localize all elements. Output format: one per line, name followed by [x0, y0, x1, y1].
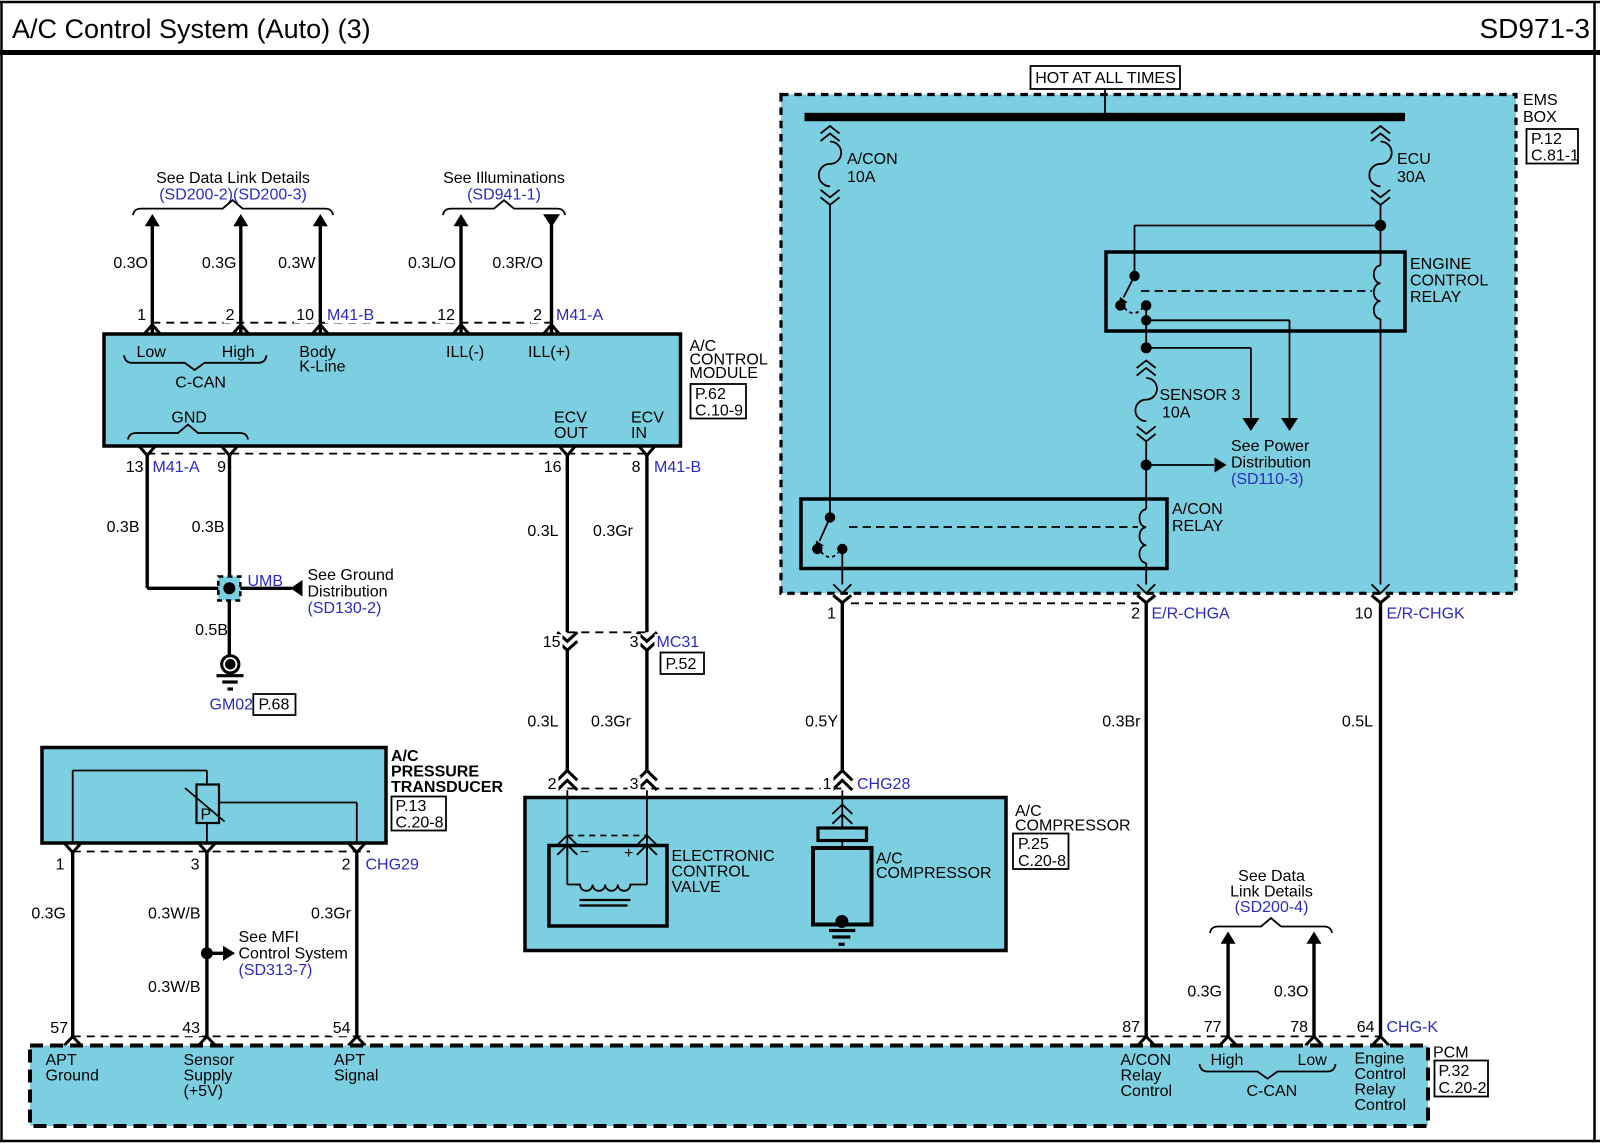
- wire label 0.5B: [195, 622, 228, 639]
- svg-text:A/CON: A/CON: [1121, 1052, 1172, 1069]
- svg-text:MODULE: MODULE: [690, 365, 758, 382]
- svg-text:43: 43: [182, 1020, 200, 1037]
- wire: module pin 2 to illuminations (0.3R/O): [543, 214, 560, 334]
- svg-text:10: 10: [296, 307, 314, 324]
- svg-text:(+5V): (+5V): [184, 1083, 224, 1100]
- wire label 0.3B (pin13): [107, 519, 140, 536]
- transducer internal wiring: [73, 771, 357, 844]
- svg-text:C.10-9: C.10-9: [695, 403, 743, 420]
- engine control relay actuation line: [1141, 290, 1372, 292]
- pin 12 (M41-A): [435, 307, 469, 334]
- svg-text:ILL(+): ILL(+): [528, 344, 570, 361]
- wire label 0.3Gr (lower): [591, 714, 632, 731]
- note: See Data Link Details (SD200-2)(SD200-3): [133, 170, 333, 215]
- svg-text:Low: Low: [1298, 1052, 1328, 1069]
- note: See Ground Distribution (SD130-2): [240, 567, 393, 617]
- wire: module pin 10 to data link (0.3W): [313, 214, 328, 334]
- connector label M41-B (bottom): [652, 459, 701, 476]
- svg-text:Link Details: Link Details: [1230, 884, 1313, 901]
- svg-text:0.3O: 0.3O: [1274, 984, 1309, 1001]
- svg-text:E/R-CHGA: E/R-CHGA: [1152, 606, 1231, 623]
- svg-text:P.68: P.68: [259, 697, 290, 714]
- svg-text:Distribution: Distribution: [308, 584, 388, 601]
- svg-text:3: 3: [630, 634, 639, 651]
- connector MC31 pin 15: [541, 632, 578, 651]
- relay: A/CON RELAY box: [801, 499, 1167, 569]
- svg-text:2: 2: [548, 776, 557, 793]
- svg-text:CHG29: CHG29: [366, 857, 419, 874]
- svg-text:E/R-CHGK: E/R-CHGK: [1387, 606, 1466, 623]
- connector CHG28 pin 1: [821, 771, 853, 794]
- thermal protector: [818, 828, 867, 841]
- PCM pin 77: [1202, 1019, 1237, 1046]
- svg-text:HOT AT ALL TIMES: HOT AT ALL TIMES: [1035, 70, 1176, 87]
- svg-text:0.5B: 0.5B: [195, 622, 228, 639]
- wire: sensor fuse output: [1145, 441, 1147, 509]
- svg-text:Relay: Relay: [1121, 1068, 1162, 1085]
- svg-text:87: 87: [1122, 1019, 1140, 1036]
- svg-text:13: 13: [126, 459, 144, 476]
- node: junction at sensor fuse output: [1141, 460, 1152, 471]
- ground symbol GM02: [217, 656, 244, 689]
- wire: A/CON relay output to EMS exit 1: [841, 549, 843, 585]
- svg-text:1: 1: [137, 307, 146, 324]
- wire label 0.5L: [1342, 714, 1373, 731]
- PCM pin 78: [1288, 1019, 1322, 1046]
- svg-text:15: 15: [543, 634, 561, 651]
- label: PCM: [1433, 1045, 1469, 1062]
- wire: module pin 2 to data link (0.3G): [233, 214, 248, 334]
- wire: CHG29 pin3 to PCM 43 (0.3W/B): [205, 853, 208, 1037]
- wire: E/R-CHGA to PCM pin 87 (0.3Br): [1144, 603, 1147, 1037]
- svg-text:P.62: P.62: [695, 386, 726, 403]
- svg-text:ECV: ECV: [554, 410, 587, 427]
- svg-text:IN: IN: [631, 425, 647, 442]
- wire: module pin 12 to illuminations (0.3L/O): [454, 214, 469, 334]
- wire: PCM pin 77 to data link (0.3G): [1221, 932, 1236, 1037]
- wire: pin 13 to UMB joint (0.3B): [147, 456, 229, 589]
- svg-text:Control: Control: [1121, 1083, 1173, 1100]
- svg-text:1: 1: [56, 857, 65, 874]
- polarity label +: [624, 845, 633, 862]
- svg-text:A/CON: A/CON: [847, 151, 898, 168]
- PCM pin 57: [48, 1020, 81, 1046]
- svg-text:P.12: P.12: [1531, 131, 1562, 148]
- pin 13 (M41-A): [124, 446, 156, 476]
- fuse A/CON 10A: [819, 126, 898, 205]
- PCM pin 43: [180, 1020, 215, 1046]
- PCM pin 87: [1120, 1019, 1155, 1046]
- wire: engine control relay coil to EMS exit 10: [1380, 319, 1382, 585]
- wire: PCM pin 78 to data link (0.3O): [1307, 932, 1322, 1037]
- connector CHG28 pin 2: [546, 771, 578, 794]
- svg-text:10A: 10A: [1162, 405, 1191, 422]
- svg-text:2: 2: [533, 307, 542, 324]
- svg-text:78: 78: [1290, 1019, 1308, 1036]
- module: A/C CONTROL MODULE box: [104, 334, 681, 446]
- page ref P.12 C.81-1: [1527, 129, 1580, 165]
- svg-text:CHG-K: CHG-K: [1387, 1019, 1439, 1036]
- page ref P.13 C.20-8: [392, 797, 447, 832]
- svg-text:0.3Gr: 0.3Gr: [591, 714, 632, 731]
- wire label 0.3L (upper): [527, 523, 558, 540]
- svg-text:TRANSDUCER: TRANSDUCER: [391, 779, 503, 796]
- wire: module pin 1 to data link (0.3O): [145, 214, 160, 334]
- ECV coil: [567, 845, 647, 891]
- connector CHG28 dashed line: [567, 788, 842, 790]
- svg-text:GM02: GM02: [210, 697, 254, 714]
- svg-text:16: 16: [544, 459, 562, 476]
- svg-text:See Ground: See Ground: [308, 567, 394, 584]
- svg-text:See Data: See Data: [1238, 868, 1305, 885]
- wire: pin 1 into compressor motor: [841, 790, 843, 828]
- pin 9 (M41-A): [215, 446, 238, 476]
- label: ENGINE CONTROL RELAY: [1410, 256, 1488, 306]
- PCM pin name: High: [1211, 1052, 1244, 1069]
- PCM pin name: A/CON Relay Control: [1121, 1052, 1173, 1100]
- wire label 0.3G (APT ground): [31, 906, 66, 923]
- wire: A/CON fuse to A/CON relay switch: [829, 206, 831, 514]
- module pin name: ECV OUT: [554, 410, 588, 443]
- wire: CHG29 pin1 to PCM 57 (0.3G): [71, 853, 74, 1037]
- node: branch junction y348: [1141, 342, 1152, 353]
- svg-text:(SD313-7): (SD313-7): [239, 962, 313, 979]
- svg-text:0.3Gr: 0.3Gr: [311, 906, 352, 923]
- wire: CHG29 pin2 to PCM 54 (0.3Gr): [355, 853, 358, 1037]
- svg-text:PRESSURE: PRESSURE: [391, 764, 479, 781]
- module: PCM box (cyan, dashed): [30, 1046, 1428, 1127]
- connector: EMS exit pin 1: [825, 584, 851, 622]
- svg-text:54: 54: [333, 1020, 351, 1037]
- svg-text:0.3G: 0.3G: [1187, 984, 1222, 1001]
- module pin name: Body K-Line: [299, 344, 345, 376]
- PCM pin name: APT Ground: [46, 1052, 99, 1085]
- svg-text:P.25: P.25: [1018, 836, 1049, 853]
- wire label 0.3W/B (upper): [148, 906, 200, 923]
- svg-text:C-CAN: C-CAN: [1247, 1083, 1298, 1100]
- PCM pin 54: [331, 1020, 366, 1046]
- wire: module pin 8 to MC31 (0.3Gr): [645, 456, 648, 633]
- A/CON relay coil: [1139, 509, 1146, 563]
- svg-text:APT: APT: [334, 1052, 365, 1069]
- note: See Data Link Details (SD200-4): [1210, 868, 1332, 933]
- svg-text:M41-B: M41-B: [654, 459, 701, 476]
- svg-text:K-Line: K-Line: [299, 359, 345, 376]
- svg-text:MC31: MC31: [657, 634, 700, 651]
- svg-text:(SD110-3): (SD110-3): [1231, 471, 1304, 488]
- svg-text:10: 10: [1355, 606, 1373, 623]
- wire label 0.3L (lower): [527, 714, 558, 731]
- connector label CHG28: [855, 776, 910, 793]
- pin 2 (M41-A): [531, 307, 560, 334]
- brace: PCM C-CAN group: [1200, 1064, 1336, 1079]
- connector CHG28 pin 3: [628, 771, 657, 794]
- page ref P.25 C.20-8: [1013, 834, 1069, 871]
- svg-text:ECU: ECU: [1397, 151, 1431, 168]
- module pin name: ECV IN: [631, 410, 664, 443]
- node: junction on ECU wire: [1375, 220, 1386, 231]
- svg-text:CONTROL: CONTROL: [1410, 273, 1488, 290]
- svg-text:RELAY: RELAY: [1410, 289, 1462, 306]
- svg-text:P.52: P.52: [666, 656, 697, 673]
- connector label M41-B (top): [325, 307, 374, 324]
- module top connector dashed line: [152, 322, 551, 324]
- svg-text:3: 3: [630, 776, 639, 793]
- PCM pin name: Engine Control Relay Control: [1355, 1051, 1407, 1115]
- svg-text:1: 1: [823, 776, 832, 793]
- svg-text:A/CON: A/CON: [1172, 501, 1223, 518]
- title separator bar: [0, 50, 1600, 55]
- wire label 0.3W/B (lower): [148, 979, 200, 996]
- node: motor ground dot: [835, 915, 848, 928]
- svg-text:0.3W/B: 0.3W/B: [148, 979, 200, 996]
- A/CON relay switch: [812, 512, 847, 557]
- svg-text:See Power: See Power: [1231, 438, 1310, 455]
- label: ELECTRONIC CONTROL VALVE: [672, 848, 775, 896]
- engine control relay switch: [1115, 271, 1151, 313]
- svg-text:ILL(-): ILL(-): [446, 344, 484, 361]
- svg-text:8: 8: [632, 459, 641, 476]
- svg-text:Control: Control: [1355, 1097, 1407, 1114]
- page ref P.52: [661, 653, 705, 675]
- svg-text:SD971-3: SD971-3: [1479, 13, 1590, 44]
- connector CHG29 pin 2: [340, 843, 366, 874]
- svg-text:C.20-2: C.20-2: [1439, 1080, 1487, 1097]
- connector label M41-A (bottom): [151, 459, 200, 476]
- svg-text:See MFI: See MFI: [239, 929, 299, 946]
- wire label 0.3L/O: [408, 255, 456, 272]
- connector CHG29 pin 3: [189, 843, 216, 874]
- svg-text:0.3L: 0.3L: [527, 714, 558, 731]
- brace: C-CAN group: [124, 355, 267, 370]
- note: See Power Distribution (SD110-3): [1146, 438, 1311, 488]
- svg-text:2: 2: [226, 307, 235, 324]
- svg-text:P: P: [201, 807, 212, 824]
- svg-text:Distribution: Distribution: [1231, 455, 1311, 472]
- compressor ground symbol: [829, 931, 855, 945]
- svg-text:0.3L: 0.3L: [527, 523, 558, 540]
- svg-text:64: 64: [1357, 1019, 1375, 1036]
- svg-text:2: 2: [342, 857, 351, 874]
- svg-text:GND: GND: [171, 410, 207, 427]
- svg-text:Control System: Control System: [239, 946, 348, 963]
- svg-text:(SD200-4): (SD200-4): [1235, 899, 1309, 916]
- wire: ECU fuse down to engine control relay coil: [1380, 206, 1382, 266]
- connector: EMS exit pin 2 E/R-CHGA: [1129, 584, 1230, 622]
- svg-text:0.3W/B: 0.3W/B: [148, 906, 200, 923]
- svg-text:10A: 10A: [847, 169, 876, 186]
- module bottom connector dashed line: [147, 453, 647, 455]
- connector label CHG29: [364, 857, 419, 874]
- compressor motor: [813, 848, 872, 925]
- svg-text:OUT: OUT: [554, 425, 588, 442]
- svg-text:Signal: Signal: [334, 1068, 378, 1085]
- wire: MC31 to ECV pin 2 (0.3L): [566, 650, 569, 770]
- connector: EMS exit pin 10 E/R-CHGK: [1353, 584, 1465, 622]
- module pin name: High: [222, 344, 255, 361]
- svg-text:12: 12: [437, 307, 455, 324]
- svg-text:See Illuminations: See Illuminations: [443, 170, 565, 187]
- label: EMS BOX: [1523, 92, 1558, 126]
- module pin name: ILL(-): [446, 344, 484, 361]
- svg-text:SENSOR 3: SENSOR 3: [1160, 387, 1241, 404]
- PCM net label C-CAN: [1247, 1083, 1298, 1100]
- PCM connector dashed line: [73, 1035, 1381, 1037]
- wire: protector to motor: [841, 841, 843, 849]
- svg-text:Ground: Ground: [46, 1068, 99, 1085]
- EMS box (cyan, dashed): [781, 95, 1516, 594]
- wire label 0.3Gr (upper): [593, 523, 634, 540]
- svg-text:RELAY: RELAY: [1172, 518, 1224, 535]
- ECV connector pin -: [557, 835, 577, 855]
- svg-text:3: 3: [191, 857, 200, 874]
- svg-text:0.3L/O: 0.3L/O: [408, 255, 456, 272]
- svg-text:P.13: P.13: [396, 798, 427, 815]
- wire label 0.3B (pin9): [192, 519, 225, 536]
- label: A/CON RELAY: [1172, 501, 1224, 535]
- connector CHG29 dashed line: [73, 851, 370, 853]
- note: See MFI Control System (SD313-7): [207, 929, 348, 979]
- svg-text:CONTROL: CONTROL: [672, 864, 750, 881]
- ECV connector pin +: [637, 835, 657, 855]
- wire label 0.3O (C-CAN low): [1274, 984, 1309, 1001]
- connector MC31 pin 3: [628, 632, 657, 651]
- svg-text:0.5Y: 0.5Y: [805, 714, 838, 731]
- title: SD971-3: [1479, 13, 1590, 44]
- svg-text:0.3Br: 0.3Br: [1102, 714, 1141, 731]
- page ref P.62 C.10-9: [691, 384, 747, 420]
- PCM pin name: Sensor Supply (+5V): [184, 1052, 235, 1100]
- svg-text:Sensor: Sensor: [184, 1052, 235, 1069]
- connector label CHG-K: [1385, 1019, 1439, 1036]
- page ref P.68: [253, 694, 295, 715]
- svg-text:A/C: A/C: [391, 748, 419, 765]
- wire: CHG28 net (0.5Y) EMS to compressor: [841, 603, 844, 771]
- svg-text:Low: Low: [137, 344, 167, 361]
- compressor inner connector: [832, 805, 852, 824]
- valve: ELECTRONIC CONTROL VALVE box: [549, 846, 667, 927]
- PCM pin 64: [1355, 1019, 1389, 1046]
- svg-text:M41-B: M41-B: [327, 307, 374, 324]
- pin 2 (M41-B): [224, 307, 249, 334]
- connector CHG29 pin 1: [54, 843, 82, 874]
- transducer: A/C PRESSURE TRANSDUCER box: [42, 748, 386, 844]
- label: A/C PRESSURE TRANSDUCER: [391, 748, 503, 796]
- svg-text:(SD130-2): (SD130-2): [308, 600, 382, 617]
- svg-text:0.3G: 0.3G: [31, 906, 66, 923]
- wire label 0.3G (C-CAN high): [1187, 984, 1222, 1001]
- svg-text:0.5L: 0.5L: [1342, 714, 1373, 731]
- label GM02: [210, 697, 254, 714]
- wire: pin 3 into ECV: [646, 790, 648, 855]
- compressor: A/C COMPRESSOR box: [525, 798, 1006, 951]
- label: HOT AT ALL TIMES: [1031, 66, 1181, 89]
- relay: ENGINE CONTROL RELAY box: [1106, 252, 1405, 331]
- brace: GND group: [128, 425, 248, 440]
- module pin name: ILL(+): [528, 344, 570, 361]
- svg-text:A/C Control System (Auto) (3): A/C Control System (Auto) (3): [12, 14, 371, 44]
- svg-text:0.3R/O: 0.3R/O: [492, 255, 543, 272]
- connector MC31 dashed line: [567, 631, 647, 633]
- wire: UMB to ground GM02 (0.5B): [228, 601, 231, 656]
- module pin name: GND: [171, 410, 207, 427]
- svg-text:+: +: [624, 845, 633, 862]
- svg-text:57: 57: [50, 1020, 68, 1037]
- svg-text:APT: APT: [46, 1052, 77, 1069]
- joint connector UMB: [218, 577, 240, 601]
- pin 16 (M41-B): [542, 446, 576, 476]
- svg-text:EMS: EMS: [1523, 92, 1558, 109]
- svg-text:1: 1: [827, 606, 836, 623]
- fuse SENSOR 3 10A: [1135, 361, 1240, 442]
- svg-text:0.3B: 0.3B: [192, 519, 225, 536]
- label: A/C COMPRESSOR (inner): [876, 851, 992, 883]
- svg-text:9: 9: [217, 459, 226, 476]
- svg-text:BOX: BOX: [1523, 109, 1557, 126]
- wire: pin 2 into ECV: [566, 790, 568, 855]
- title: A/C Control System (Auto) (3): [12, 14, 371, 44]
- power bus bar: [805, 113, 1406, 121]
- wire label 0.3G: [202, 255, 237, 272]
- svg-text:See Data Link Details: See Data Link Details: [156, 170, 310, 187]
- svg-text:77: 77: [1204, 1019, 1222, 1036]
- svg-text:0.3W: 0.3W: [278, 255, 316, 272]
- svg-text:VALVE: VALVE: [672, 879, 721, 896]
- svg-text:C-CAN: C-CAN: [175, 375, 226, 392]
- svg-text:PCM: PCM: [1433, 1045, 1469, 1062]
- svg-text:2: 2: [1131, 606, 1140, 623]
- wire: E/R-CHGK to PCM pin 64 (0.5L): [1379, 603, 1382, 1037]
- svg-text:30A: 30A: [1397, 169, 1426, 186]
- svg-text:Relay: Relay: [1355, 1082, 1396, 1099]
- wire: hot feed to bus bar: [1104, 89, 1106, 113]
- svg-text:ECV: ECV: [631, 410, 664, 427]
- svg-text:COMPRESSOR: COMPRESSOR: [876, 865, 992, 882]
- wire label 0.3R/O: [492, 255, 543, 272]
- pressure sensor element P: [185, 785, 225, 824]
- svg-text:C.20-8: C.20-8: [1018, 853, 1066, 870]
- ECV core lines: [580, 900, 631, 906]
- wire label 0.3Gr (APT signal): [311, 906, 352, 923]
- pin 8 (M41-B): [630, 446, 655, 476]
- svg-text:ENGINE: ENGINE: [1410, 256, 1471, 273]
- wire: module pin 16 to MC31 (0.3L): [566, 456, 569, 633]
- svg-text:High: High: [222, 344, 255, 361]
- A/CON relay actuation line: [849, 526, 1138, 528]
- node: branch junction y320: [1141, 315, 1151, 325]
- wire label 0.3Br: [1102, 714, 1141, 731]
- node: MFI branch junction: [201, 947, 213, 959]
- wire: branch to power distribution arrow right: [1146, 320, 1298, 431]
- svg-text:C.20-8: C.20-8: [396, 815, 444, 832]
- engine control relay coil: [1374, 266, 1381, 319]
- wire label 0.3O: [113, 255, 148, 272]
- svg-text:−: −: [580, 844, 589, 861]
- label: A/C CONTROL MODULE: [690, 338, 768, 382]
- label: A/C COMPRESSOR (outer): [1015, 803, 1131, 835]
- ECV connector dashed line: [567, 835, 647, 837]
- label UMB: [248, 573, 284, 590]
- wire label 0.5Y: [805, 714, 838, 731]
- pin 10 (M41-B): [294, 307, 328, 334]
- svg-text:0.3G: 0.3G: [202, 255, 237, 272]
- svg-text:P.32: P.32: [1439, 1063, 1470, 1080]
- svg-text:0.3O: 0.3O: [113, 255, 148, 272]
- svg-text:Supply: Supply: [184, 1068, 233, 1085]
- wire: A/CON relay coil to EMS exit 2: [1145, 563, 1147, 585]
- connector dashed link line at EMS exits: [851, 602, 1146, 604]
- svg-text:High: High: [1211, 1052, 1244, 1069]
